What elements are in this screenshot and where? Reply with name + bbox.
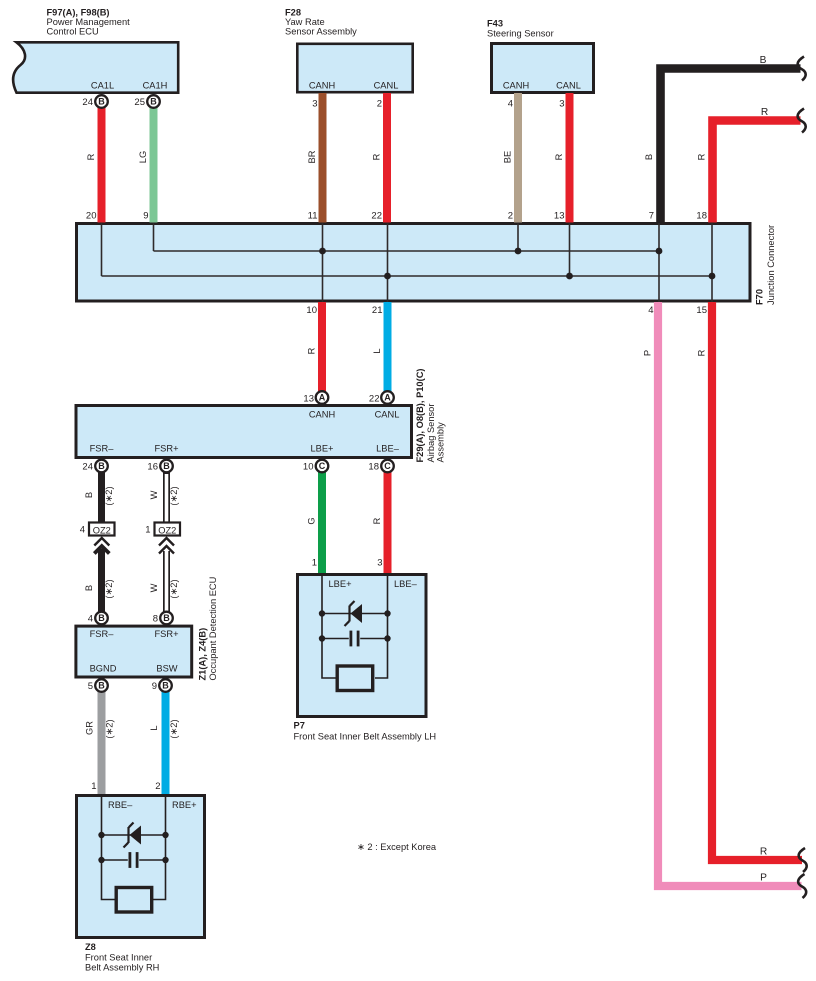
- svg-text:B: B: [98, 97, 105, 107]
- label CANH F28: [309, 81, 335, 91]
- svg-text:13: 13: [303, 394, 314, 405]
- junction pin 22: [371, 211, 382, 222]
- Z8 internal wire right: [153, 796, 166, 900]
- svg-text:18: 18: [368, 462, 379, 473]
- svg-text:CANH: CANH: [309, 410, 335, 420]
- wire B FSR- to OZ2: [98, 467, 105, 522]
- svg-text:BR: BR: [307, 150, 317, 163]
- svg-text:4: 4: [88, 614, 93, 625]
- svg-text:18: 18: [696, 211, 707, 222]
- connector circle pin 8 B occupant: [160, 612, 173, 625]
- svg-text:A: A: [384, 393, 391, 403]
- connector circle pin 13 A: [316, 391, 329, 404]
- svg-text:LG: LG: [138, 151, 148, 163]
- wire R CANL F43 to pin 13: [566, 93, 574, 223]
- junction internal line pin 22 to pin 21: [387, 223, 389, 302]
- wire P pin 4: [658, 302, 802, 886]
- wire B to pin 7: [661, 69, 801, 223]
- junction internal stub pin 20: [101, 223, 103, 276]
- airbag label F29: [415, 368, 446, 462]
- junction pin 11: [308, 211, 318, 222]
- wire label P pin 4: [643, 350, 653, 356]
- svg-text:BE: BE: [503, 151, 513, 163]
- wire label R horizontal top: [761, 107, 768, 118]
- label RBE- Z8: [108, 800, 133, 810]
- title F28: [285, 8, 357, 37]
- svg-text:LBE–: LBE–: [394, 579, 418, 589]
- connector circle pin 22 A: [381, 391, 394, 404]
- wire label R F28: [372, 153, 382, 160]
- label FSR+ occupant: [154, 629, 178, 639]
- svg-text:4: 4: [80, 525, 85, 536]
- OZ2 pin 1: [145, 525, 150, 536]
- label LBE- airbag: [376, 444, 400, 454]
- svg-text:R: R: [761, 107, 768, 118]
- svg-text:R: R: [554, 153, 564, 160]
- svg-text:B: B: [150, 97, 157, 107]
- airbag pin 22: [369, 394, 380, 405]
- svg-text:9: 9: [152, 681, 157, 692]
- svg-text:B: B: [98, 681, 105, 691]
- Z8 node dots: [98, 832, 168, 863]
- occupant pin 5: [88, 681, 93, 692]
- svg-text:Steering Sensor: Steering Sensor: [487, 29, 554, 39]
- wire R LBE- to P7 pin 3: [384, 467, 392, 573]
- connector OZ2 left box pin 4: [89, 523, 115, 536]
- wire break R top: [798, 109, 806, 133]
- label BGND occupant: [90, 664, 117, 674]
- P7 capacitor row wire: [322, 638, 388, 640]
- airbag sensor assembly box: [76, 406, 412, 458]
- wire label B horizontal: [760, 55, 767, 66]
- wire break R bottom: [799, 848, 807, 872]
- svg-text:24: 24: [82, 97, 93, 108]
- pin 2 F28: [377, 99, 382, 110]
- title P7: [294, 721, 437, 742]
- svg-text:RBE–: RBE–: [108, 800, 133, 810]
- wire label LG: [138, 151, 148, 163]
- wire label W FSR+ lower: [149, 583, 159, 592]
- svg-text:∗ 2 : Except Korea: ∗ 2 : Except Korea: [357, 842, 437, 852]
- svg-text:R: R: [760, 847, 767, 858]
- svg-text:Control ECU: Control ECU: [47, 27, 99, 37]
- svg-text:R: R: [697, 349, 707, 356]
- svg-text:B: B: [163, 613, 170, 623]
- svg-text:G: G: [307, 517, 317, 524]
- OZ2 pin 4: [80, 525, 85, 536]
- junction pin 20: [86, 211, 97, 222]
- svg-text:B: B: [644, 154, 654, 160]
- svg-text:1: 1: [91, 781, 96, 792]
- svg-text:4: 4: [508, 99, 513, 110]
- wire R CA1L to pin 20: [98, 102, 106, 223]
- wire label L pin 21: [372, 348, 382, 353]
- wire G LBE+ to P7 pin 1: [318, 467, 326, 573]
- svg-text:Yaw Rate: Yaw Rate: [285, 17, 325, 27]
- wire R pin 15: [712, 302, 802, 860]
- svg-text:Junction Connector: Junction Connector: [766, 225, 776, 305]
- svg-text:L: L: [372, 348, 382, 353]
- svg-text:R: R: [307, 347, 317, 354]
- svg-text:25: 25: [134, 97, 145, 108]
- wire R to pin 18: [713, 121, 801, 223]
- P7 internal wire left: [322, 575, 336, 679]
- svg-text:3: 3: [377, 558, 382, 569]
- Z8 squib resistor box: [116, 888, 152, 913]
- wire label B FSR- lower: [84, 585, 94, 591]
- junction pin 2: [508, 211, 513, 222]
- svg-text:1: 1: [145, 525, 150, 536]
- svg-text:3: 3: [312, 99, 317, 110]
- svg-text:13: 13: [554, 211, 565, 222]
- svg-text:5: 5: [88, 681, 93, 692]
- junction pin 10: [306, 305, 317, 316]
- svg-text:P7: P7: [294, 721, 305, 731]
- wire W OZ2 to occupant ECU pin 8: [163, 551, 170, 618]
- svg-text:OZ2: OZ2: [158, 526, 176, 536]
- svg-text:B: B: [162, 681, 169, 691]
- svg-text:CANH: CANH: [309, 81, 335, 91]
- P7 zener diode: [345, 601, 363, 626]
- label CA1L: [91, 81, 114, 91]
- svg-text:8: 8: [153, 614, 158, 625]
- wire label W FSR+ upper: [149, 490, 159, 499]
- connector circle pin 5 B occupant: [95, 679, 108, 692]
- wire label R horizontal bottom: [760, 847, 767, 858]
- svg-text:Belt Assembly RH: Belt Assembly RH: [85, 963, 159, 973]
- wire label P horizontal bottom: [760, 873, 767, 884]
- junction node dot pin 7: [656, 248, 663, 255]
- occupant detection ECU box: [76, 626, 192, 677]
- svg-text:Occupant Detection ECU: Occupant Detection ECU: [208, 577, 218, 681]
- svg-text:(∗2): (∗2): [104, 579, 114, 598]
- P7 pin 3: [377, 558, 382, 569]
- connector circle pin 18 C airbag: [381, 460, 394, 473]
- svg-text:P: P: [760, 873, 767, 884]
- junction CANL bus wire: [102, 275, 713, 277]
- svg-text:B: B: [98, 613, 105, 623]
- wire label GR: [85, 721, 95, 735]
- connector circle pin 16 B airbag: [160, 460, 173, 473]
- P7 capacitor: [350, 631, 360, 647]
- svg-text:BGND: BGND: [90, 664, 117, 674]
- svg-text:C: C: [319, 461, 326, 471]
- svg-text:R: R: [372, 153, 382, 160]
- svg-text:B: B: [98, 461, 105, 471]
- connector OZ2 right box pin 1: [155, 523, 181, 536]
- junction pin 9: [143, 211, 148, 222]
- svg-text:F28: F28: [285, 8, 301, 18]
- occupant pin 4: [88, 614, 93, 625]
- svg-text:CANL: CANL: [375, 410, 400, 420]
- label CANH F43: [503, 81, 529, 91]
- label LBE+ airbag: [310, 444, 333, 454]
- wire LG CA1H to pin 9: [150, 102, 158, 223]
- label CANL F28: [374, 81, 399, 91]
- yaw rate sensor F28 box: [297, 44, 412, 92]
- svg-text:L: L: [149, 725, 159, 730]
- label LBE+ P7: [329, 579, 352, 589]
- belt assembly P7 box: [298, 575, 427, 717]
- svg-text:1: 1: [312, 558, 317, 569]
- Z8 internal wire left: [102, 796, 115, 900]
- Z8 capacitor: [129, 852, 139, 868]
- airbag pin 16: [147, 462, 158, 473]
- wire label R CA1L: [86, 153, 96, 160]
- svg-text:20: 20: [86, 211, 97, 222]
- svg-text:Sensor Assembly: Sensor Assembly: [285, 27, 357, 37]
- svg-text:Assembly: Assembly: [436, 422, 446, 463]
- wire R CANL F28 to pin 22: [383, 93, 391, 223]
- connector circle pin 24 B airbag: [95, 460, 108, 473]
- svg-text:GR: GR: [85, 721, 95, 735]
- Z8 zener diode: [124, 823, 142, 848]
- connector circle pin 25 B: [147, 95, 160, 108]
- svg-text:Z1(A), Z4(B): Z1(A), Z4(B): [198, 628, 208, 681]
- airbag pin 13: [303, 394, 314, 405]
- svg-text:A: A: [319, 393, 326, 403]
- svg-text:(∗2): (∗2): [169, 719, 179, 738]
- wire B OZ2 to occupant ECU pin 4: [98, 549, 105, 618]
- wire label (*2) FSR- lower: [104, 579, 114, 598]
- svg-text:7: 7: [649, 211, 654, 222]
- wire label (*2) FSR- upper: [104, 486, 114, 505]
- svg-text:21: 21: [372, 305, 383, 316]
- junction pin 13: [554, 211, 565, 222]
- connector circle pin 9 B occupant: [159, 679, 172, 692]
- P7 node dots: [319, 610, 391, 641]
- junction internal stub pin 9: [153, 223, 155, 251]
- junction pin 18: [696, 211, 707, 222]
- title F43: [487, 19, 554, 39]
- svg-text:LBE–: LBE–: [376, 444, 400, 454]
- P7 internal wire right: [375, 575, 388, 679]
- svg-text:B: B: [84, 585, 94, 591]
- connector circle pin 10 C airbag: [316, 460, 329, 473]
- junction pin 4: [648, 305, 653, 316]
- junction node dot pin 13: [566, 273, 573, 280]
- svg-text:B: B: [163, 461, 170, 471]
- svg-text:BSW: BSW: [156, 664, 177, 674]
- title Z8: [85, 942, 159, 973]
- wire L BSW to Z8 pin 2: [162, 686, 170, 795]
- svg-text:FSR–: FSR–: [90, 444, 115, 454]
- label LBE- P7: [394, 579, 418, 589]
- occupant pin 8: [153, 614, 158, 625]
- junction internal line pin 18 to pin 15: [711, 223, 713, 302]
- junction internal line pin 7 to pin 4: [658, 223, 660, 302]
- connector circle pin 24 B: [95, 95, 108, 108]
- svg-text:B: B: [84, 492, 94, 498]
- label FSR- occupant: [90, 629, 115, 639]
- svg-text:CANH: CANH: [503, 81, 529, 91]
- svg-text:C: C: [384, 461, 391, 471]
- svg-text:4: 4: [648, 305, 653, 316]
- svg-text:Power Management: Power Management: [47, 17, 131, 27]
- wire label (*2) GR: [105, 719, 115, 738]
- svg-text:2: 2: [377, 99, 382, 110]
- svg-text:(∗2): (∗2): [169, 486, 179, 505]
- wire label R pin 15: [697, 349, 707, 356]
- steering sensor F43 box: [492, 44, 594, 93]
- svg-text:R: R: [697, 153, 707, 160]
- junction node dot pin 18: [709, 273, 716, 280]
- wire R pin 10 to CANH airbag: [318, 302, 326, 397]
- junction pin 7: [649, 211, 654, 222]
- note except korea: [357, 842, 437, 852]
- wire break P: [798, 874, 806, 898]
- wire break B: [798, 57, 806, 81]
- svg-text:16: 16: [147, 462, 158, 473]
- wire label R F43: [554, 153, 564, 160]
- wire label G LBE+: [307, 517, 317, 524]
- junction pin 21: [372, 305, 383, 316]
- svg-text:Airbag Sensor: Airbag Sensor: [426, 404, 436, 463]
- svg-text:2: 2: [155, 781, 160, 792]
- wire label R pin 10: [307, 347, 317, 354]
- svg-text:24: 24: [82, 462, 93, 473]
- junction node dot pin 22: [384, 273, 391, 280]
- svg-text:15: 15: [696, 305, 707, 316]
- junction node dot pin 11: [319, 248, 326, 255]
- pin 24: [82, 97, 93, 108]
- wire BR CANH F28 to pin 11: [319, 93, 327, 223]
- connector OZ2 left chevrons: [94, 538, 109, 554]
- title F97 F98: [47, 8, 131, 37]
- svg-text:22: 22: [369, 394, 380, 405]
- svg-text:FSR–: FSR–: [90, 629, 115, 639]
- wire label R vertical right: [697, 153, 707, 160]
- svg-text:3: 3: [559, 99, 564, 110]
- junction node dot pin 2: [515, 248, 522, 255]
- label CANL F43: [556, 81, 581, 91]
- svg-text:22: 22: [371, 211, 382, 222]
- junction label F70: [755, 225, 777, 305]
- wire label L BSW: [149, 725, 159, 730]
- svg-text:(∗2): (∗2): [105, 719, 115, 738]
- label CANL airbag: [375, 410, 400, 420]
- svg-text:10: 10: [306, 305, 317, 316]
- label CA1H: [143, 81, 168, 91]
- junction CANH bus wire: [154, 250, 660, 252]
- wire L pin 21 to CANL airbag: [384, 302, 392, 397]
- airbag pin 10: [303, 462, 314, 473]
- ECU F97/F98 box: [13, 42, 178, 92]
- svg-text:10: 10: [303, 462, 314, 473]
- svg-text:LBE+: LBE+: [310, 444, 333, 454]
- wire label (*2) FSR+ upper: [169, 486, 179, 505]
- junction internal stub pin 2: [517, 223, 519, 251]
- label BSW occupant: [156, 664, 177, 674]
- svg-text:CANL: CANL: [374, 81, 399, 91]
- svg-text:F70: F70: [755, 289, 765, 305]
- svg-text:11: 11: [308, 211, 318, 222]
- svg-text:F43: F43: [487, 19, 503, 29]
- junction connector F70 box: [77, 224, 751, 302]
- wire label R LBE-: [372, 517, 382, 524]
- svg-text:CA1H: CA1H: [143, 81, 168, 91]
- svg-text:CA1L: CA1L: [91, 81, 114, 91]
- pin 3 F28: [312, 99, 317, 110]
- svg-text:FSR+: FSR+: [154, 629, 178, 639]
- wire W FSR+ to OZ2: [163, 467, 170, 522]
- airbag pin 18: [368, 462, 379, 473]
- svg-text:CANL: CANL: [556, 81, 581, 91]
- svg-text:(∗2): (∗2): [104, 486, 114, 505]
- junction internal line pin 11 to pin 10: [322, 223, 324, 302]
- label FSR- airbag: [90, 444, 115, 454]
- wire GR BGND to Z8 pin 1: [98, 686, 106, 795]
- airbag pin 24: [82, 462, 93, 473]
- svg-text:P: P: [643, 350, 653, 356]
- connector circle pin 4 B occupant: [95, 612, 108, 625]
- wire label (*2) L: [169, 719, 179, 738]
- label FSR+ airbag: [154, 444, 178, 454]
- occupant label Z1: [198, 577, 219, 681]
- pin 3 F43: [559, 99, 564, 110]
- junction internal stub pin 13: [569, 223, 571, 276]
- svg-text:B: B: [760, 55, 767, 66]
- P7 pin 1: [312, 558, 317, 569]
- svg-text:(∗2): (∗2): [169, 579, 179, 598]
- svg-text:LBE+: LBE+: [329, 579, 352, 589]
- svg-text:2: 2: [508, 211, 513, 222]
- P7 squib resistor box: [337, 666, 373, 691]
- label RBE+ Z8: [172, 800, 197, 810]
- svg-text:W: W: [149, 583, 159, 592]
- wire label B FSR- upper: [84, 492, 94, 498]
- connector OZ2 right chevrons: [159, 538, 174, 554]
- belt assembly Z8 box: [77, 796, 205, 938]
- svg-text:FSR+: FSR+: [154, 444, 178, 454]
- Z8 diode row wire: [102, 834, 166, 836]
- svg-text:9: 9: [143, 211, 148, 222]
- svg-text:OZ2: OZ2: [93, 526, 111, 536]
- svg-text:F97(A), F98(B): F97(A), F98(B): [47, 8, 110, 18]
- svg-text:F29(A), O8(B), P10(C): F29(A), O8(B), P10(C): [415, 368, 425, 462]
- svg-text:R: R: [86, 153, 96, 160]
- wire label BE: [503, 151, 513, 163]
- P7 diode row wire: [322, 613, 388, 615]
- junction pin 15: [696, 305, 707, 316]
- occupant pin 9: [152, 681, 157, 692]
- svg-text:W: W: [149, 490, 159, 499]
- Z8 pin 2: [155, 781, 160, 792]
- Z8 pin 1: [91, 781, 96, 792]
- svg-text:RBE+: RBE+: [172, 800, 197, 810]
- wire label B vertical: [644, 154, 654, 160]
- wire BE CANH F43 to pin 2: [514, 93, 522, 223]
- pin 25: [134, 97, 145, 108]
- label CANH airbag: [309, 410, 335, 420]
- wire label BR: [307, 150, 317, 163]
- svg-text:Z8: Z8: [85, 942, 96, 952]
- svg-text:Front Seat Inner: Front Seat Inner: [85, 953, 152, 963]
- Z8 capacitor row wire: [102, 859, 166, 861]
- wire label (*2) FSR+ lower: [169, 579, 179, 598]
- pin 4 F43: [508, 99, 513, 110]
- svg-text:Front Seat Inner Belt Assembly: Front Seat Inner Belt Assembly LH: [294, 732, 437, 742]
- svg-text:R: R: [372, 517, 382, 524]
